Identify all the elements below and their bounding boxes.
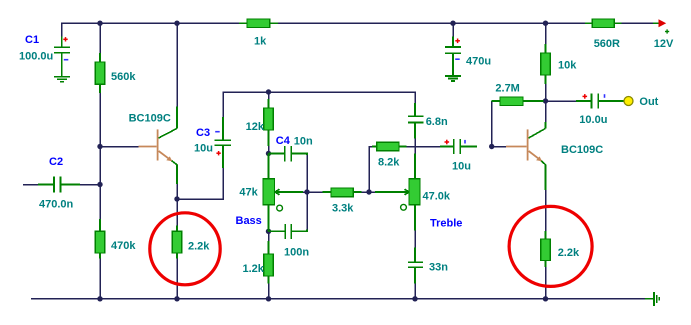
svg-text:470u: 470u [466, 56, 491, 68]
svg-text:C3: C3 [196, 127, 210, 139]
svg-text:10.0u: 10.0u [579, 114, 607, 126]
svg-text:2.7M: 2.7M [495, 83, 519, 95]
svg-text:100.0u: 100.0u [19, 51, 53, 63]
svg-text:12V: 12V [654, 38, 674, 50]
svg-text:47k: 47k [239, 187, 258, 199]
svg-text:47.0k: 47.0k [423, 191, 451, 203]
svg-text:10n: 10n [294, 135, 313, 147]
svg-text:BC109C: BC109C [129, 113, 171, 125]
svg-text:10u: 10u [194, 143, 213, 155]
svg-text:2.2k: 2.2k [188, 241, 210, 253]
svg-text:6.8n: 6.8n [426, 116, 448, 128]
svg-text:3.3k: 3.3k [332, 203, 354, 215]
svg-text:470k: 470k [111, 240, 136, 252]
svg-text:560R: 560R [594, 38, 620, 50]
svg-text:C1: C1 [25, 34, 39, 46]
svg-text:Treble: Treble [430, 218, 462, 230]
svg-text:33n: 33n [429, 262, 448, 274]
svg-text:100n: 100n [284, 247, 309, 259]
svg-text:10k: 10k [558, 60, 577, 72]
svg-text:C2: C2 [49, 156, 63, 168]
svg-text:Bass: Bass [236, 215, 262, 227]
svg-text:1k: 1k [254, 36, 267, 48]
svg-text:10u: 10u [452, 160, 471, 172]
svg-text:2.2k: 2.2k [558, 247, 580, 259]
svg-text:1.2k: 1.2k [243, 263, 265, 275]
svg-text:BC109C: BC109C [561, 144, 603, 156]
svg-text:470.0n: 470.0n [39, 199, 74, 211]
svg-text:8.2k: 8.2k [378, 157, 400, 169]
svg-text:C4: C4 [276, 135, 291, 147]
svg-text:12k: 12k [246, 121, 265, 133]
svg-text:560k: 560k [111, 71, 136, 83]
svg-text:Out: Out [639, 96, 658, 108]
